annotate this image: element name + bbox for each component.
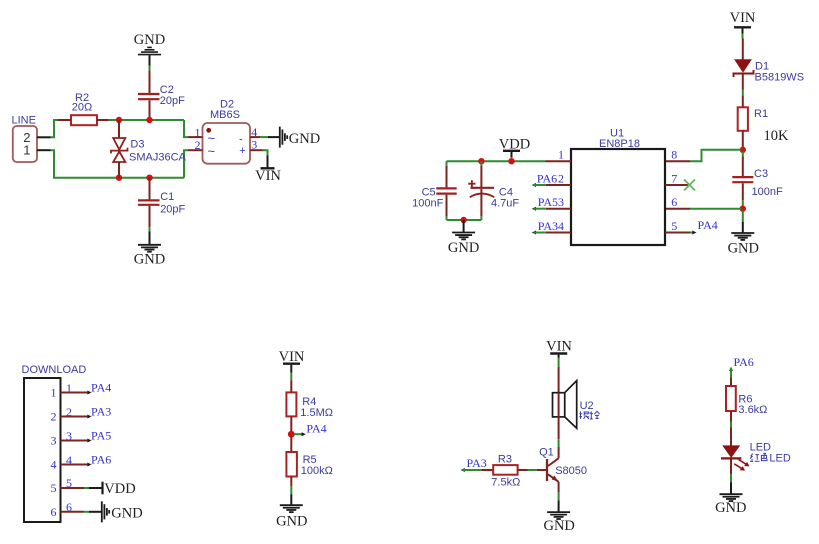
svg-text:GND: GND <box>448 240 479 256</box>
pin U1.5 <box>665 219 690 233</box>
svg-text:4.7uF: 4.7uF <box>491 197 519 209</box>
no-connect X pin7 <box>684 179 695 190</box>
svg-text:R3: R3 <box>498 453 512 465</box>
svg-text:PA4: PA4 <box>698 218 718 232</box>
resistor R4 <box>286 392 333 419</box>
pin U1.4 <box>546 219 571 233</box>
junction <box>146 175 152 181</box>
svg-text:GND: GND <box>715 500 746 516</box>
ground GND (below Q1) <box>543 482 574 534</box>
ground GND (below LED) <box>715 460 746 517</box>
svg-text:4: 4 <box>66 453 72 467</box>
ground GND (below C3) <box>728 211 759 257</box>
svg-text:Q1: Q1 <box>539 447 554 459</box>
svg-text:GND: GND <box>276 513 307 529</box>
svg-text:GND: GND <box>134 252 165 268</box>
pin D2.1 wire <box>188 136 203 138</box>
svg-text:7.5kΩ: 7.5kΩ <box>491 476 520 488</box>
resistor R5 <box>286 452 332 477</box>
svg-text:5: 5 <box>671 219 677 233</box>
svg-text:MB6S: MB6S <box>210 109 240 121</box>
svg-text:C1: C1 <box>160 191 174 203</box>
net label PA5 (pin3) <box>532 195 558 211</box>
svg-text:PA5: PA5 <box>538 195 558 209</box>
pin 1 / net label PA4 <box>61 381 112 395</box>
junction <box>146 117 152 123</box>
wire C5-C4 bottom rail <box>447 219 482 221</box>
power flag VIN (below D2) <box>250 150 281 184</box>
resistor R3 <box>461 453 547 488</box>
svg-text:GND: GND <box>111 505 142 521</box>
wire <box>149 66 151 71</box>
svg-text:LINE: LINE <box>12 115 36 127</box>
svg-text:100nF: 100nF <box>752 186 783 198</box>
svg-text:1: 1 <box>51 386 57 400</box>
svg-text:R4: R4 <box>302 396 316 408</box>
resistor R6 <box>726 386 767 416</box>
power flag VIN (divider) <box>279 349 305 393</box>
pin U1.7 <box>665 171 690 185</box>
wire bottom bus <box>51 120 189 178</box>
junction <box>288 431 295 438</box>
svg-text:4: 4 <box>51 458 57 472</box>
svg-text:PA3: PA3 <box>467 456 487 470</box>
junction <box>508 158 514 164</box>
svg-text:100nF: 100nF <box>412 197 443 209</box>
pin U1.1 <box>546 148 572 162</box>
wire VDD rail <box>447 160 546 162</box>
ground GND (below R5) <box>276 477 307 530</box>
pin 2 / net label PA3 <box>61 405 112 419</box>
svg-text:PA3: PA3 <box>91 405 111 419</box>
svg-text:~: ~ <box>208 144 216 159</box>
svg-text:4: 4 <box>558 219 564 233</box>
svg-text:6: 6 <box>51 505 57 519</box>
power flag VIN (buzzer) <box>546 338 572 392</box>
wire top bus <box>51 120 185 137</box>
svg-text:U2: U2 <box>580 400 594 412</box>
svg-text:LED: LED <box>750 441 771 453</box>
resistor R2 <box>58 92 109 125</box>
junction <box>740 206 746 212</box>
pin D2.2 wire <box>188 149 203 151</box>
net label PA3 (pin4) <box>532 219 558 235</box>
svg-text:20pF: 20pF <box>160 204 185 216</box>
svg-text:GND: GND <box>134 32 165 48</box>
bridge rectifier D2 <box>195 99 258 164</box>
pin U1.3 <box>546 195 571 209</box>
pin 4 / net label PA6 <box>61 453 112 467</box>
net label PA4 (pin5) <box>690 218 718 235</box>
speaker U2 <box>553 381 594 429</box>
svg-text:6: 6 <box>66 500 72 514</box>
svg-text:3: 3 <box>66 429 72 443</box>
diode D3 TVS <box>111 120 187 178</box>
svg-text:100kΩ: 100kΩ <box>301 465 333 477</box>
connector LINE <box>12 115 51 163</box>
power flag VDD <box>499 136 530 161</box>
capacitor C5 <box>412 161 457 220</box>
connector DOWNLOAD <box>22 364 87 522</box>
power flag VIN (top right) <box>730 10 756 39</box>
svg-text:1: 1 <box>558 148 564 162</box>
net label PA6 (led) <box>729 355 754 386</box>
junction <box>740 147 746 153</box>
IC U1 EN8P18 <box>571 127 665 245</box>
svg-text:C3: C3 <box>754 168 768 180</box>
svg-text:B5819WS: B5819WS <box>755 71 805 83</box>
svg-text:6: 6 <box>671 195 677 209</box>
wire <box>290 437 292 453</box>
junction <box>478 158 484 164</box>
wire <box>730 411 732 446</box>
svg-text:GND: GND <box>543 518 574 534</box>
wire <box>558 417 560 458</box>
svg-text:1.5MΩ: 1.5MΩ <box>300 407 333 419</box>
svg-text:1: 1 <box>23 143 30 158</box>
capacitor C1 <box>138 178 186 228</box>
net label PA6 (pin2) <box>532 172 557 187</box>
svg-text:LED: LED <box>769 453 790 465</box>
pin U1.2 <box>546 171 571 185</box>
svg-text:+: + <box>239 145 245 157</box>
svg-text:GND: GND <box>289 131 320 147</box>
capacitor C2 <box>138 71 185 118</box>
svg-text:PA6: PA6 <box>91 453 111 467</box>
svg-text:2: 2 <box>66 405 72 419</box>
LED D (red LED) <box>721 441 771 470</box>
svg-text:PA6: PA6 <box>537 172 557 186</box>
wire <box>290 416 292 432</box>
svg-text:VIN: VIN <box>546 338 572 354</box>
wire <box>742 90 744 108</box>
ground GND (top, above C2) <box>134 32 165 66</box>
svg-text:7: 7 <box>671 171 677 185</box>
svg-text:VIN: VIN <box>730 10 756 26</box>
ground GND (below C5/C4) <box>448 220 479 256</box>
svg-text:PA4: PA4 <box>91 381 111 395</box>
junction <box>116 175 122 181</box>
ground GND (below C1) <box>134 227 165 267</box>
svg-text:VIN: VIN <box>255 168 281 184</box>
svg-text:D3: D3 <box>130 138 144 150</box>
svg-text:-: - <box>239 133 243 145</box>
svg-text:10K: 10K <box>764 128 790 144</box>
svg-text:2: 2 <box>51 410 57 424</box>
svg-text:3: 3 <box>51 434 57 448</box>
svg-text:20Ω: 20Ω <box>72 102 92 114</box>
capacitor C3 <box>732 152 783 208</box>
pin 3 / net label PA5 <box>61 429 112 443</box>
svg-text:PA6: PA6 <box>734 355 754 369</box>
svg-text:R1: R1 <box>754 108 768 120</box>
svg-text:5: 5 <box>51 481 57 495</box>
capacitor C4 <box>468 161 519 220</box>
resistor R1 <box>738 107 789 144</box>
svg-text:PA5: PA5 <box>91 429 111 443</box>
label U2 Chinese (zhen ling) <box>579 411 599 419</box>
svg-text:GND: GND <box>728 241 759 257</box>
svg-text:PA4: PA4 <box>306 421 326 435</box>
junction <box>460 217 466 223</box>
svg-text:2: 2 <box>558 171 564 185</box>
svg-text:3: 3 <box>558 195 564 209</box>
label red LED Chinese (hong se LED) <box>750 453 791 465</box>
ground GND (right of D2) <box>250 127 320 148</box>
svg-text:5: 5 <box>66 476 72 490</box>
svg-text:1: 1 <box>66 381 72 395</box>
diode D1 <box>734 39 805 90</box>
svg-text:3.6kΩ: 3.6kΩ <box>738 404 767 416</box>
transistor Q1 <box>539 447 587 482</box>
wire <box>742 131 744 148</box>
svg-text:DOWNLOAD: DOWNLOAD <box>22 364 87 376</box>
svg-text:VDD: VDD <box>104 481 135 497</box>
wire pin6 to junction <box>665 208 741 210</box>
svg-text:20pF: 20pF <box>160 95 185 107</box>
junction <box>116 117 122 123</box>
svg-text:8: 8 <box>671 148 677 162</box>
svg-text:SMAJ36CA: SMAJ36CA <box>129 151 187 163</box>
svg-text:VIN: VIN <box>279 349 305 365</box>
pin 5 / power flag VDD <box>61 476 136 497</box>
wire pin8 to junction <box>665 150 741 161</box>
svg-text:PA3: PA3 <box>538 219 558 233</box>
svg-text:S8050: S8050 <box>555 465 587 477</box>
net label PA4 (divider) <box>294 421 327 436</box>
pin 6 / ground GND <box>61 500 143 522</box>
